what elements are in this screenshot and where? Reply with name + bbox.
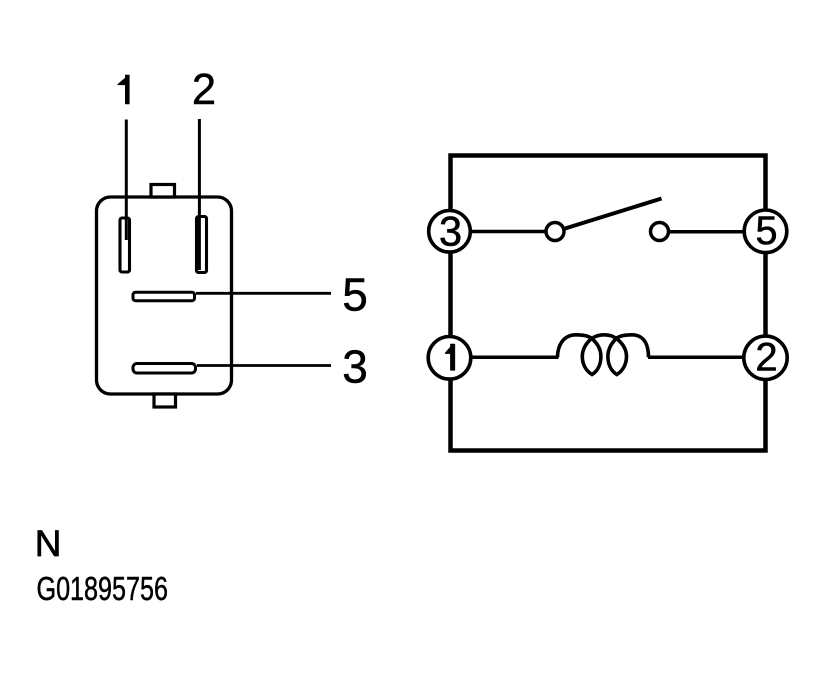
wire terminal 1 to coil xyxy=(471,356,559,360)
wire terminal 3 to switch contact xyxy=(471,230,546,234)
relay case outline xyxy=(451,156,766,451)
bottom mounting tab xyxy=(154,394,176,407)
pin 2 slot xyxy=(197,217,207,273)
terminal 1 xyxy=(428,337,471,380)
relay coil xyxy=(558,335,649,375)
svg-text:N: N xyxy=(35,523,62,564)
svg-text:G01895756: G01895756 xyxy=(37,571,169,608)
svg-text:2: 2 xyxy=(755,336,777,380)
pin 3 leader wire xyxy=(197,364,331,367)
wire switch contact to terminal 5 xyxy=(670,230,745,234)
switch contact left xyxy=(546,223,564,241)
switch arm xyxy=(565,199,662,229)
terminal 2 xyxy=(744,336,787,380)
svg-text:3: 3 xyxy=(342,341,368,393)
terminal 5 xyxy=(744,209,787,253)
top mounting tab xyxy=(151,185,175,198)
svg-text:3: 3 xyxy=(439,208,462,255)
svg-text:5: 5 xyxy=(756,209,778,253)
pin 5 slot xyxy=(133,292,195,300)
switch contact right xyxy=(651,223,669,241)
relay connector body xyxy=(97,197,232,394)
svg-text:2: 2 xyxy=(192,66,216,114)
pin 1 leader wire xyxy=(125,120,128,241)
pin 3 slot xyxy=(133,364,196,374)
pin 1 label xyxy=(118,75,130,105)
pin 5 leader wire xyxy=(196,292,331,295)
wire coil to terminal 2 xyxy=(648,356,745,360)
svg-text:5: 5 xyxy=(342,269,368,321)
pin 1 slot xyxy=(120,218,130,272)
pin 2 leader wire xyxy=(198,119,201,270)
terminal 3 xyxy=(429,208,471,255)
